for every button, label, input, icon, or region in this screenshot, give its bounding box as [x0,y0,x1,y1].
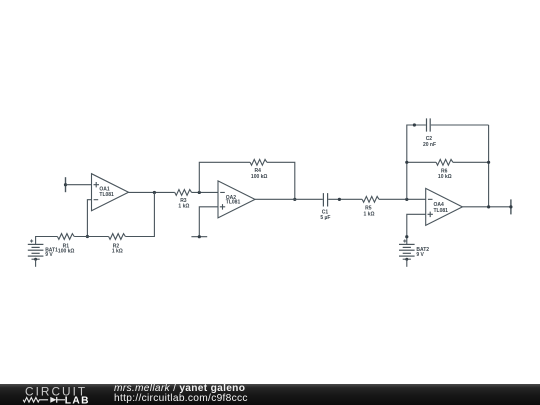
node R3/R4 junction [198,191,201,194]
ground (BAT1) [32,258,40,267]
wire C2 to right column [431,124,489,126]
node R5/feedback junction [405,198,408,201]
capacitor C1 [320,193,330,221]
wire OA4 + to BAT2 [407,214,426,244]
svg-text:100 kΩ: 100 kΩ [58,248,75,254]
capacitor C2 [423,118,436,147]
wire IN to OA1 + [66,184,92,186]
wire R4 left leg [199,162,250,192]
wire R1 to junction to R2 [74,236,108,238]
battery BAT2 [399,239,429,258]
wire OA2 out to C1 [255,198,323,200]
ground (BAT2) [403,258,411,267]
node R1/R2 junction [86,235,89,238]
resistor R2 [109,234,126,255]
resistor R6 [436,159,453,180]
resistor R1 [57,234,74,255]
wire OA2 + to ground [199,207,218,237]
resistor R3 [175,190,192,210]
wire OA1 - stub and feedback column [87,200,91,237]
svg-text:20 nF: 20 nF [423,142,436,148]
op-amp OA1 [92,174,129,211]
svg-text:9 V: 9 V [416,252,424,258]
node BAT2 top joint [405,235,408,238]
node C1/R5 wire joint [338,198,341,201]
wire C1 to R5 [328,198,362,200]
footer text [114,384,248,404]
op-amp OA4 [426,188,463,225]
svg-text:OA4: OA4 [434,202,445,208]
wire R3 to OA2 [192,191,218,193]
wire R6 left leg [407,161,436,163]
svg-text:1 kΩ: 1 kΩ [112,248,123,254]
node R6 left junction [405,161,408,164]
CircuitLab logo [0,384,100,405]
resistor R5 [362,196,379,217]
wire OA4 out to terminal [462,206,511,208]
terminal OUT [509,199,512,214]
node OA1 out junction [153,191,156,194]
wire R6 right leg [453,161,489,163]
node R4/OA2 out junction [293,198,296,201]
node output/feedback junction [487,205,490,208]
svg-text:100 kΩ: 100 kΩ [251,174,268,180]
svg-text:1 kΩ: 1 kΩ [364,211,375,217]
terminal IN [64,177,67,192]
ground (OA2 +) [191,235,207,238]
op-amp OA2 [218,181,255,218]
wire feedback left column [407,125,426,199]
svg-text:9 V: 9 V [45,252,53,258]
resistor R4 [250,159,267,180]
svg-text:5 µF: 5 µF [320,215,330,221]
svg-text:10 kΩ: 10 kΩ [438,174,452,180]
wire R4 right leg [267,162,295,199]
node R6 right junction [487,161,490,164]
svg-text:TL081: TL081 [99,192,114,198]
wire BAT1 to R1 [36,237,58,245]
footer bar [0,384,540,405]
wire OA1 out [129,191,175,193]
svg-text:1 kΩ: 1 kΩ [178,204,189,210]
svg-text:TL081: TL081 [226,200,241,206]
node C2 row joint [413,123,416,126]
battery BAT1 [28,239,58,258]
svg-text:TL081: TL081 [434,208,449,214]
svg-text:LAB: LAB [65,395,90,405]
wire R5 to OA4 - [379,198,426,200]
wire R2 up to OA1 out [125,192,154,236]
wire right feedback column [488,125,490,207]
